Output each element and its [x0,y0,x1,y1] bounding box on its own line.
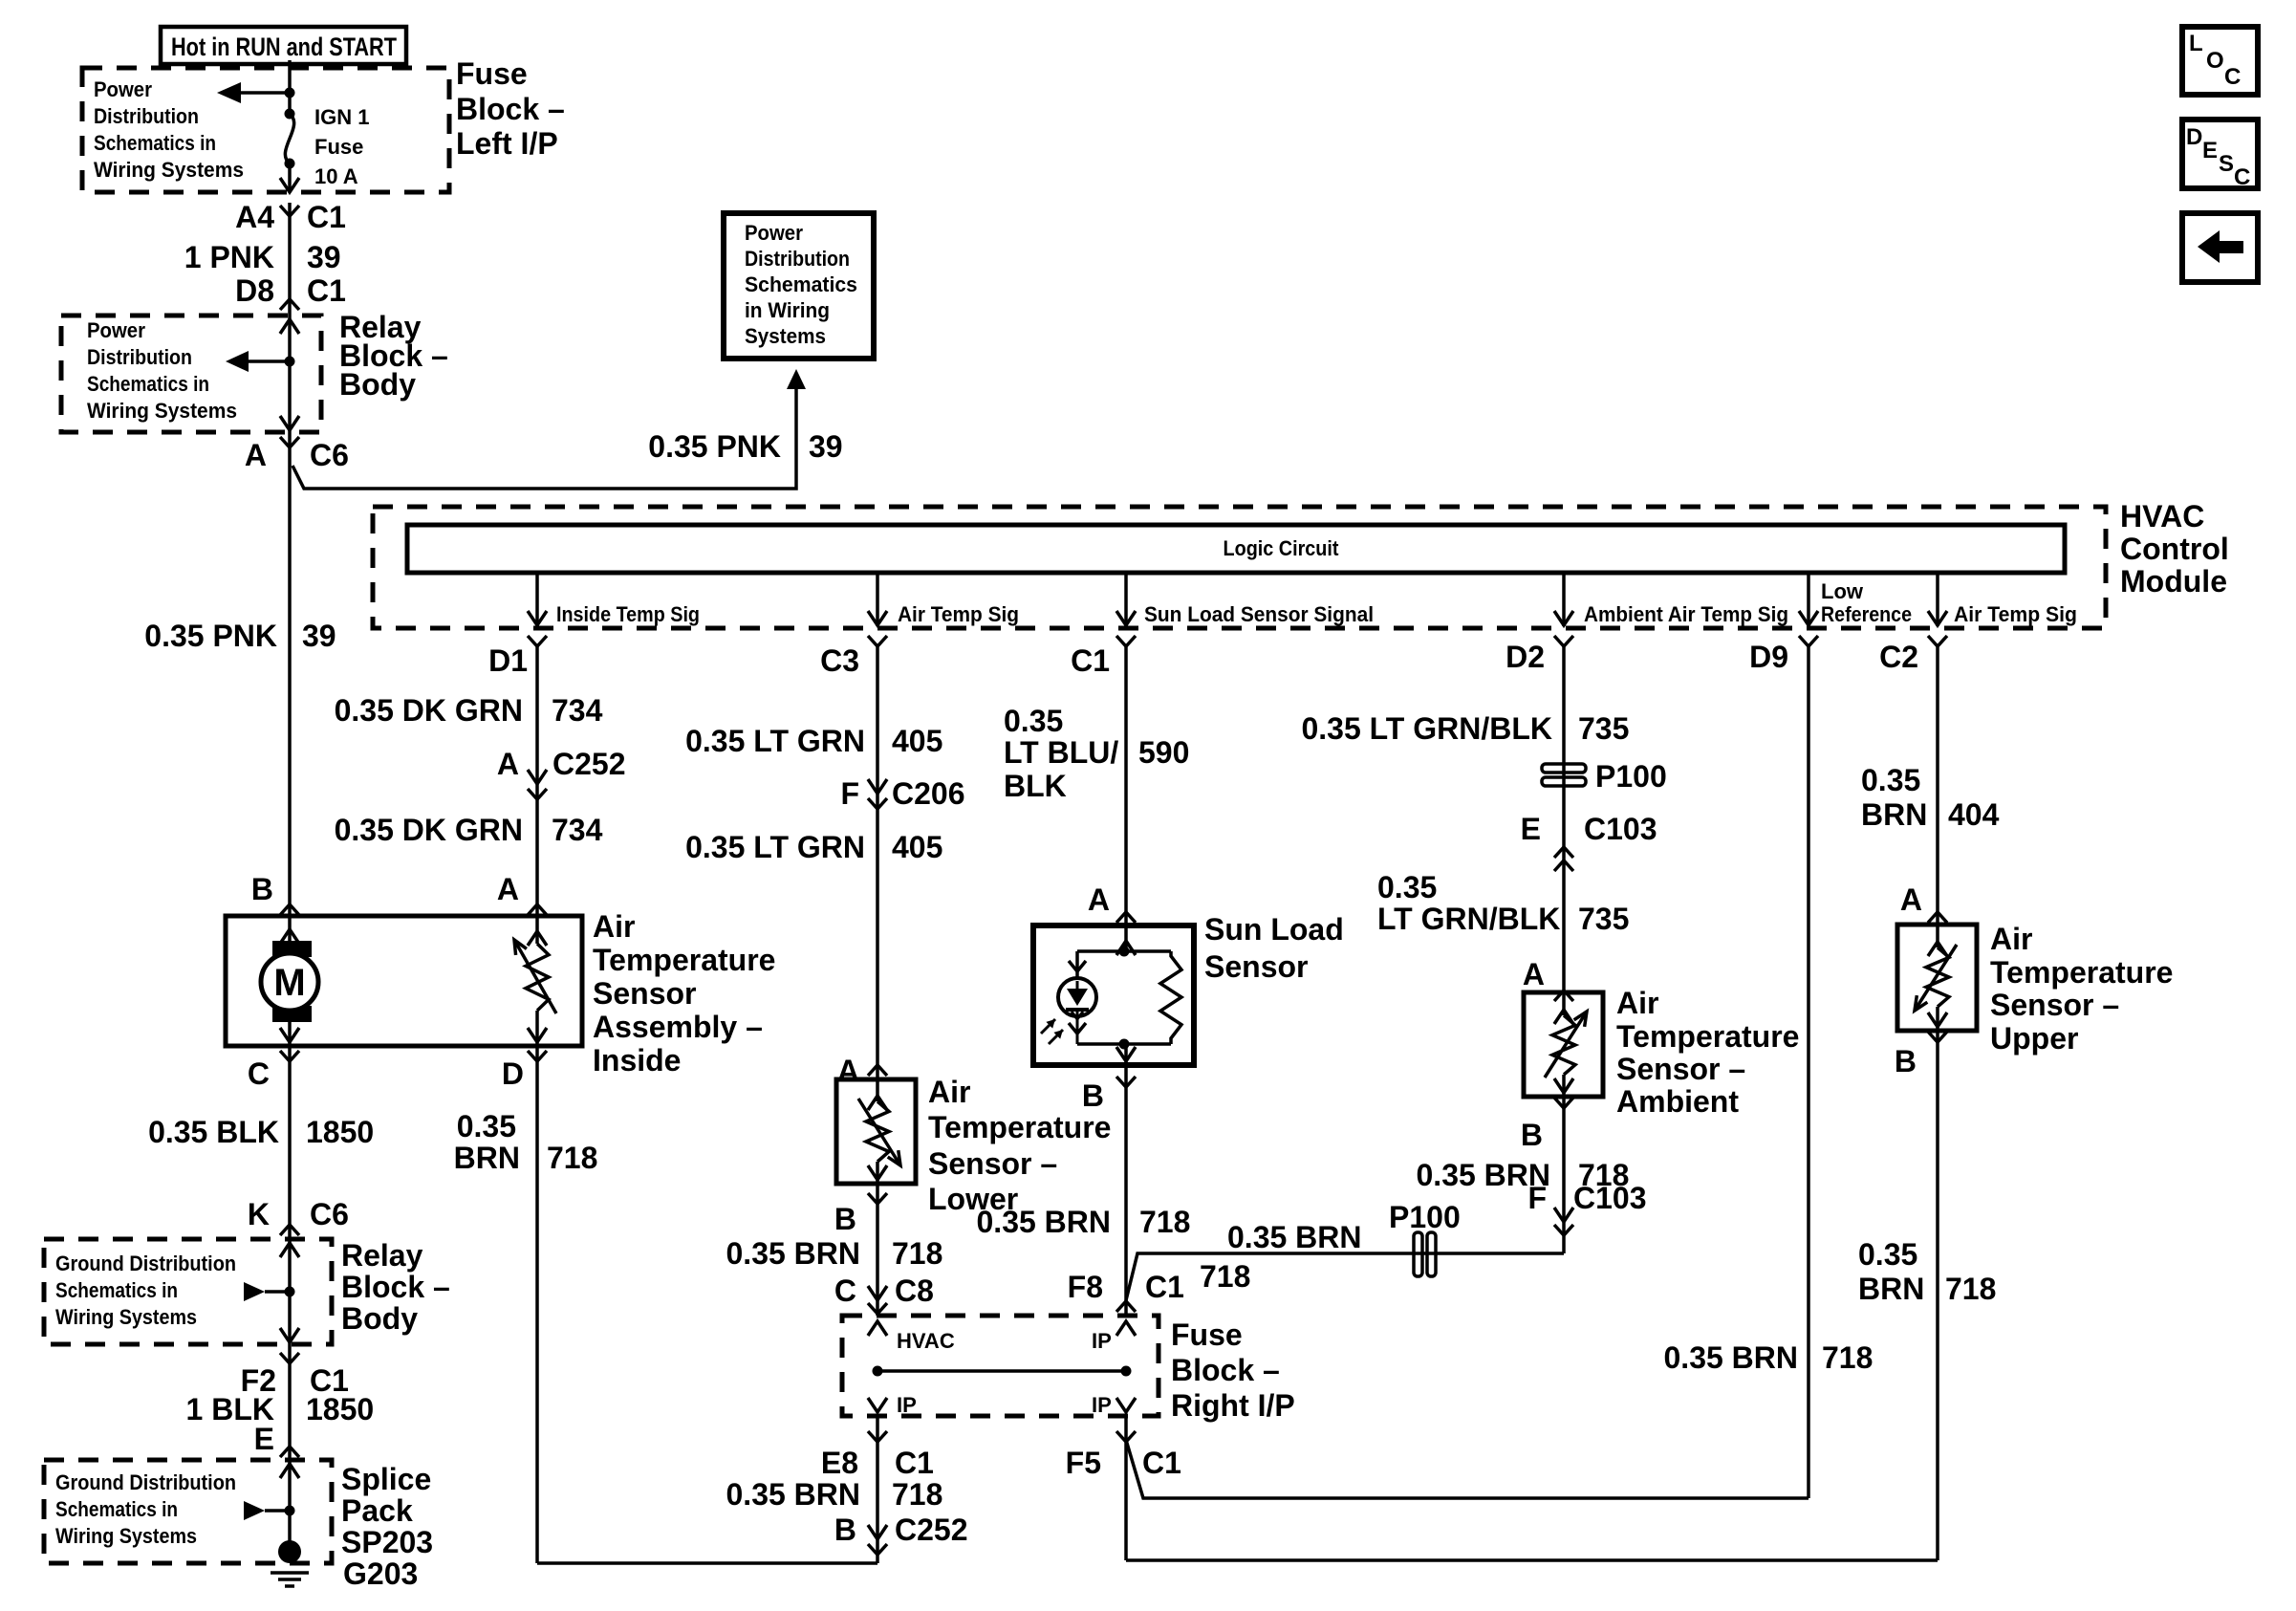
svg-text:LT BLU/: LT BLU/ [1004,735,1118,770]
svg-text:Reference: Reference [1821,602,1912,626]
svg-text:LT GRN/BLK: LT GRN/BLK [1377,902,1560,936]
svg-text:IP: IP [897,1393,917,1417]
svg-text:A: A [497,747,519,781]
svg-text:BRN: BRN [1858,1272,1924,1306]
svg-text:0.35 PNK: 0.35 PNK [144,619,277,653]
svg-text:Control: Control [2120,532,2229,566]
svg-text:D8: D8 [235,273,274,308]
svg-text:C: C [2234,164,2250,190]
svg-text:P100: P100 [1595,759,1667,794]
svg-text:O: O [2206,48,2224,74]
svg-text:Pack: Pack [341,1493,413,1528]
svg-text:C103: C103 [1573,1181,1647,1215]
svg-text:Air Temp Sig: Air Temp Sig [1954,602,2077,626]
svg-text:C: C [834,1274,856,1308]
svg-text:A: A [245,438,267,472]
svg-text:IP: IP [1092,1329,1112,1353]
svg-text:0.35 LT GRN/BLK: 0.35 LT GRN/BLK [1301,711,1552,746]
svg-text:Body: Body [339,367,416,402]
svg-text:0.35: 0.35 [1377,870,1437,904]
svg-text:405: 405 [892,724,942,758]
svg-text:Wiring Systems: Wiring Systems [94,158,244,182]
svg-text:Air: Air [1616,986,1658,1020]
svg-text:K: K [248,1197,270,1231]
svg-text:C1: C1 [307,273,346,308]
svg-text:C8: C8 [895,1274,934,1308]
svg-text:Schematics in: Schematics in [55,1278,178,1302]
svg-text:C1: C1 [895,1446,934,1480]
svg-text:A: A [1088,882,1110,917]
svg-text:0.35: 0.35 [1004,704,1063,738]
svg-text:Ground Distribution: Ground Distribution [55,1470,236,1494]
svg-text:D: D [502,1056,524,1091]
svg-text:Wiring Systems: Wiring Systems [87,399,237,423]
svg-text:P100: P100 [1389,1200,1461,1234]
svg-text:718: 718 [1822,1340,1873,1375]
svg-text:C6: C6 [310,438,349,472]
svg-text:735: 735 [1578,711,1629,746]
svg-text:in Wiring: in Wiring [745,298,830,322]
svg-text:B: B [834,1513,856,1547]
svg-text:Assembly –: Assembly – [593,1010,763,1044]
svg-text:C1: C1 [307,200,346,234]
svg-text:590: 590 [1138,735,1189,770]
svg-text:Temperature: Temperature [593,943,775,977]
svg-text:718: 718 [1945,1272,1996,1306]
svg-text:Relay: Relay [341,1238,423,1273]
svg-text:718: 718 [892,1236,942,1271]
svg-text:718: 718 [1200,1259,1250,1294]
svg-text:E: E [254,1422,274,1456]
svg-text:Sensor –: Sensor – [1990,988,2119,1022]
svg-text:Power: Power [94,77,152,101]
svg-text:B: B [251,872,273,906]
svg-text:Schematics in: Schematics in [94,131,216,155]
svg-text:0.35 BRN: 0.35 BRN [1664,1340,1799,1375]
svg-text:Air: Air [593,909,635,944]
svg-text:D: D [2186,124,2202,150]
svg-text:B: B [1521,1118,1543,1152]
svg-text:BRN: BRN [454,1141,520,1175]
svg-text:Air: Air [1990,922,2032,956]
svg-text:0.35 DK GRN: 0.35 DK GRN [335,693,523,728]
svg-text:BLK: BLK [1004,769,1067,803]
svg-text:A: A [837,1054,859,1088]
svg-text:0.35 PNK: 0.35 PNK [648,429,781,464]
svg-text:E: E [2202,138,2218,163]
svg-text:Sensor –: Sensor – [928,1146,1057,1181]
svg-text:C1: C1 [1145,1270,1184,1304]
svg-text:0.35 BRN: 0.35 BRN [1227,1220,1362,1254]
svg-text:B: B [1082,1078,1104,1113]
svg-text:C252: C252 [895,1513,968,1547]
svg-text:Fuse: Fuse [314,135,363,159]
svg-text:Sensor –: Sensor – [1616,1052,1745,1086]
svg-text:F8: F8 [1068,1270,1103,1304]
svg-text:1 PNK: 1 PNK [184,240,274,274]
svg-text:C2: C2 [1879,640,1918,674]
svg-text:Distribution: Distribution [745,247,850,271]
svg-text:L: L [2189,31,2203,56]
svg-text:Upper: Upper [1990,1021,2078,1056]
svg-text:Power: Power [87,318,145,342]
svg-text:F: F [1527,1181,1547,1215]
svg-text:Wiring Systems: Wiring Systems [55,1524,197,1548]
svg-text:F: F [840,776,859,811]
svg-text:718: 718 [1139,1205,1190,1239]
svg-text:Sensor: Sensor [1204,949,1308,984]
svg-text:1850: 1850 [306,1115,374,1149]
svg-text:Temperature: Temperature [1616,1019,1799,1054]
svg-text:Temperature: Temperature [1990,955,2173,990]
svg-text:Wiring Systems: Wiring Systems [55,1305,197,1329]
svg-text:Right I/P: Right I/P [1171,1388,1295,1423]
svg-text:IP: IP [1092,1393,1112,1417]
svg-text:G203: G203 [343,1557,418,1591]
svg-text:Temperature: Temperature [928,1110,1111,1144]
svg-text:Hot in RUN and START: Hot in RUN and START [171,33,397,61]
svg-text:D2: D2 [1505,640,1545,674]
svg-text:718: 718 [547,1141,597,1175]
svg-text:0.35 BRN: 0.35 BRN [977,1205,1112,1239]
svg-text:B: B [1895,1044,1917,1078]
svg-text:Systems: Systems [745,324,826,348]
svg-text:B: B [834,1202,856,1236]
svg-text:0.35 DK GRN: 0.35 DK GRN [335,813,523,847]
svg-text:M: M [273,962,305,1004]
svg-text:Logic Circuit: Logic Circuit [1224,536,1340,560]
svg-text:Inside: Inside [593,1043,681,1078]
svg-text:734: 734 [552,693,603,728]
svg-text:Low: Low [1821,579,1864,603]
svg-text:Inside Temp Sig: Inside Temp Sig [556,602,700,626]
svg-text:A4: A4 [235,200,274,234]
svg-text:Air Temp Sig: Air Temp Sig [898,602,1019,626]
svg-text:405: 405 [892,830,942,864]
svg-text:IGN 1: IGN 1 [314,105,369,129]
svg-text:C: C [2224,64,2241,90]
svg-text:0.35: 0.35 [1861,763,1920,797]
svg-text:0.35: 0.35 [1858,1237,1917,1272]
svg-text:Ambient Air Temp Sig: Ambient Air Temp Sig [1584,602,1788,626]
svg-text:Block –: Block – [456,92,565,126]
svg-text:C103: C103 [1584,812,1657,846]
svg-text:Left I/P: Left I/P [456,126,558,161]
svg-text:A: A [1523,957,1545,991]
svg-text:Module: Module [2120,564,2227,599]
svg-text:Sun Load Sensor Signal: Sun Load Sensor Signal [1144,602,1374,626]
svg-text:Sun Load: Sun Load [1204,912,1344,947]
svg-text:0.35: 0.35 [457,1109,516,1143]
svg-text:Power: Power [745,221,803,245]
svg-text:Air: Air [928,1075,970,1109]
svg-text:C252: C252 [552,747,626,781]
svg-text:Distribution: Distribution [87,345,192,369]
svg-text:10 A: 10 A [314,164,358,188]
svg-text:Fuse: Fuse [1171,1317,1243,1352]
svg-text:735: 735 [1578,902,1629,936]
svg-text:D1: D1 [488,643,528,678]
svg-text:C1: C1 [1071,643,1110,678]
svg-text:Body: Body [341,1301,418,1336]
svg-text:C: C [248,1056,270,1091]
svg-text:C3: C3 [820,643,859,678]
svg-text:Ambient: Ambient [1616,1084,1739,1119]
svg-text:Schematics in: Schematics in [55,1497,178,1521]
svg-text:S: S [2219,151,2234,177]
svg-text:HVAC: HVAC [897,1329,955,1353]
svg-text:Fuse: Fuse [456,56,528,91]
svg-text:A: A [1900,882,1922,917]
svg-text:0.35 BRN: 0.35 BRN [726,1477,861,1512]
svg-text:0.35 LT GRN: 0.35 LT GRN [685,724,865,758]
svg-text:Ground Distribution: Ground Distribution [55,1252,236,1275]
svg-text:C206: C206 [892,776,965,811]
svg-text:39: 39 [302,619,336,653]
svg-text:0.35 BRN: 0.35 BRN [726,1236,861,1271]
svg-text:BRN: BRN [1861,797,1927,832]
svg-text:734: 734 [552,813,603,847]
svg-text:Schematics: Schematics [745,272,857,296]
svg-text:Schematics in: Schematics in [87,372,209,396]
svg-text:E8: E8 [821,1446,858,1480]
svg-text:Block –: Block – [341,1270,450,1304]
svg-text:C1: C1 [1142,1446,1181,1480]
svg-text:C6: C6 [310,1197,349,1231]
svg-text:A: A [497,872,519,906]
svg-text:404: 404 [1948,797,2000,832]
svg-text:Splice: Splice [341,1462,431,1496]
svg-text:HVAC: HVAC [2120,499,2204,533]
svg-text:Sensor: Sensor [593,976,696,1011]
svg-text:1850: 1850 [306,1392,374,1426]
svg-text:SP203: SP203 [341,1525,433,1559]
svg-text:E: E [1521,812,1541,846]
svg-text:718: 718 [892,1477,942,1512]
svg-text:0.35 BLK: 0.35 BLK [148,1115,279,1149]
svg-text:0.35 LT GRN: 0.35 LT GRN [685,830,865,864]
svg-text:Block –: Block – [1171,1353,1280,1387]
svg-text:39: 39 [809,429,843,464]
svg-text:F5: F5 [1066,1446,1101,1480]
svg-text:39: 39 [307,240,341,274]
svg-text:Distribution: Distribution [94,104,199,128]
svg-text:D9: D9 [1749,640,1788,674]
